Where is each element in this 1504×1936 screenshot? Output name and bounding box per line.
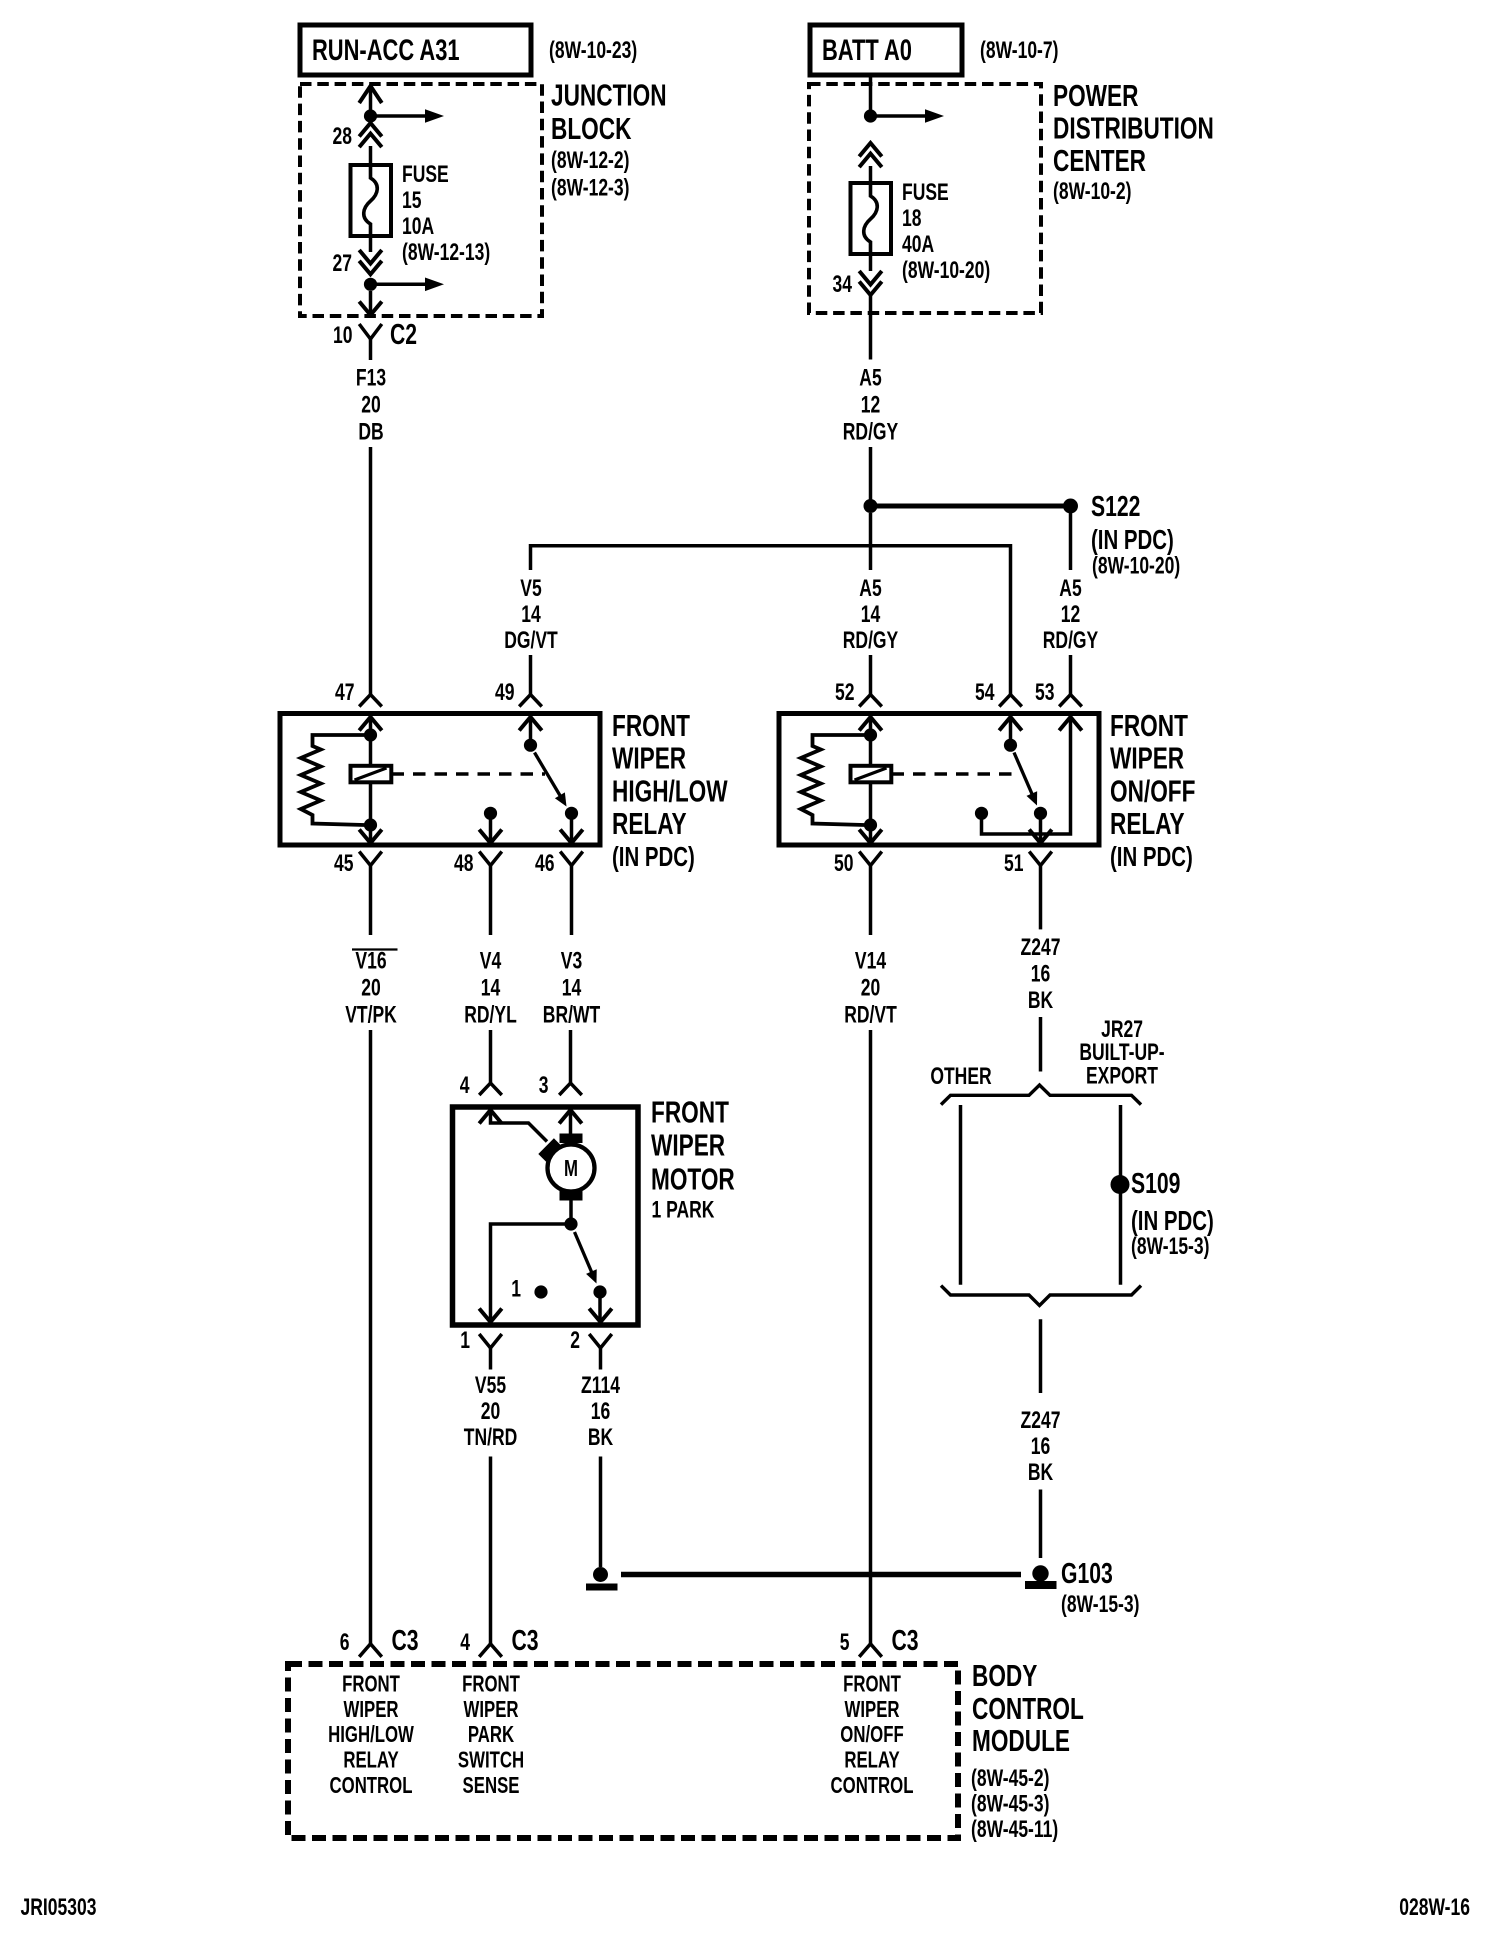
S122 labels	[1091, 491, 1180, 579]
fuse 15 10A (junction block)	[351, 165, 392, 236]
fuse 18 labels	[902, 179, 990, 283]
svg-text:BUILT-UP-: BUILT-UP-	[1079, 1039, 1164, 1065]
relay coil energizing dot top	[864, 728, 877, 741]
svg-text:OTHER: OTHER	[930, 1063, 991, 1089]
svg-text:34: 34	[833, 271, 853, 297]
svg-text:10: 10	[333, 322, 352, 348]
svg-text:10A: 10A	[402, 213, 434, 239]
motor M1 title	[651, 1094, 735, 1223]
wire: BATT feed into PDC	[869, 75, 873, 112]
svg-text:CONTROL: CONTROL	[831, 1773, 914, 1798]
node: junction dot A (in junction block)	[364, 109, 377, 122]
svg-text:FUSE: FUSE	[902, 179, 949, 205]
branch arrow right (in junction block)	[376, 109, 445, 123]
svg-text:52: 52	[835, 679, 854, 705]
svg-text:(8W-10-7): (8W-10-7)	[980, 37, 1058, 63]
branch arrow right lower (in junction block)	[376, 278, 445, 292]
power source box BATT A0	[810, 25, 962, 75]
svg-text:28: 28	[333, 123, 353, 149]
relay coil energizing dot top	[364, 728, 377, 741]
relay K1 dashed actuation link	[392, 772, 546, 775]
svg-text:53: 53	[1035, 679, 1054, 705]
svg-text:Z114: Z114	[581, 1372, 620, 1398]
svg-text:(8W-10-23): (8W-10-23)	[549, 37, 637, 63]
svg-text:WIPER: WIPER	[651, 1127, 725, 1162]
junction block (dashed boundary)	[300, 84, 542, 316]
relay coil dot bottom	[864, 818, 877, 831]
relay K1 switch common dot (pin 49)	[524, 717, 537, 752]
wire to junction block bottom edge with down arrow	[359, 291, 382, 315]
svg-text:RELAY: RELAY	[844, 1748, 900, 1773]
pin 48 connector	[454, 830, 502, 877]
svg-text:14: 14	[521, 601, 541, 627]
BCM pin 5 function text	[831, 1672, 914, 1799]
svg-text:Z247: Z247	[1021, 934, 1061, 960]
svg-text:WIPER: WIPER	[844, 1697, 899, 1722]
motor M1 FRONT WIPER MOTOR box	[453, 1107, 639, 1325]
svg-text:RELAY: RELAY	[343, 1748, 399, 1773]
svg-text:46: 46	[535, 850, 554, 876]
svg-text:(8W-12-3): (8W-12-3)	[551, 175, 629, 201]
svg-text:FRONT: FRONT	[651, 1094, 729, 1129]
sheet number 028W-16	[1399, 1894, 1470, 1920]
power distribution center title	[1053, 77, 1214, 204]
svg-text:45: 45	[334, 850, 354, 876]
svg-text:V14: V14	[855, 948, 886, 974]
pin 49 connector	[495, 679, 542, 730]
wire A5 14 RD/GY to pin 52	[843, 513, 898, 695]
svg-text:SENSE: SENSE	[463, 1773, 520, 1798]
svg-text:(8W-12-2): (8W-12-2)	[551, 147, 629, 173]
label OTHER	[930, 1063, 991, 1089]
svg-text:(IN PDC): (IN PDC)	[1091, 525, 1174, 556]
svg-text:20: 20	[861, 975, 880, 1001]
S109 labels	[1131, 1168, 1214, 1260]
wire F13 20 DB	[356, 365, 386, 695]
pin 28 double chevron	[333, 123, 382, 150]
svg-text:5: 5	[840, 1629, 850, 1655]
motor pin 1 connector	[460, 1309, 502, 1370]
node: splice S122 junction dot on A5 wire	[864, 499, 878, 513]
wire V16 20 VT/PK with overline	[345, 866, 397, 1644]
svg-text:C2: C2	[390, 319, 417, 351]
relay K2 FRONT WIPER ON/OFF RELAY box	[779, 714, 1099, 846]
relay K1 contact dot pin 48	[484, 807, 497, 843]
pin 27 double chevron	[333, 236, 382, 277]
reference (8W-10-7)	[980, 37, 1058, 63]
pin 54 connector	[975, 679, 1022, 730]
svg-text:MOTOR: MOTOR	[651, 1161, 735, 1196]
svg-text:028W-16: 028W-16	[1399, 1894, 1470, 1920]
svg-text:(IN PDC): (IN PDC)	[612, 842, 695, 873]
motor pin 3 connector	[539, 1063, 582, 1124]
wire: RUN-ACC feed into junction block with up arrow	[359, 86, 382, 112]
connector C3 pin 5	[840, 1625, 919, 1657]
wire V55 20 TN/RD	[464, 1372, 518, 1643]
svg-text:POWER: POWER	[1053, 77, 1139, 112]
svg-text:HIGH/LOW: HIGH/LOW	[328, 1723, 414, 1748]
top selection brace	[941, 1085, 1141, 1105]
connector C2 pin 10	[333, 319, 417, 360]
junction block title	[551, 77, 667, 201]
G103 labels	[1061, 1558, 1139, 1618]
svg-text:14: 14	[481, 975, 501, 1001]
svg-text:(8W-10-2): (8W-10-2)	[1053, 178, 1131, 204]
svg-text:(8W-45-2): (8W-45-2)	[971, 1765, 1049, 1791]
power source box RUN-ACC A31	[300, 25, 531, 75]
svg-text:WIPER: WIPER	[1110, 740, 1184, 775]
svg-text:VT/PK: VT/PK	[345, 1002, 397, 1028]
svg-text:A5: A5	[1059, 575, 1082, 601]
svg-text:F13: F13	[356, 365, 386, 391]
svg-text:G103: G103	[1061, 1558, 1113, 1590]
park contact 1 dot	[511, 1276, 547, 1302]
relay K1 FRONT WIPER HIGH/LOW RELAY box	[280, 714, 600, 846]
power distribution center (dashed boundary)	[809, 84, 1041, 313]
relay K2 moving contact dot (pin 51)	[1034, 807, 1047, 843]
motor top brush	[560, 1134, 583, 1144]
svg-text:3: 3	[539, 1072, 549, 1098]
svg-text:(8W-45-3): (8W-45-3)	[971, 1791, 1049, 1817]
wire chevron to fuse 18	[869, 166, 873, 183]
svg-text:A5: A5	[859, 365, 882, 391]
svg-text:16: 16	[591, 1398, 610, 1424]
svg-text:EXPORT: EXPORT	[1086, 1063, 1158, 1089]
relay coil resistor (parallel)	[301, 735, 365, 825]
svg-text:V4: V4	[480, 948, 502, 974]
fuse 18 40A (in PDC)	[851, 183, 892, 254]
motor bottom brush	[560, 1191, 583, 1201]
svg-text:27: 27	[333, 250, 352, 276]
wire brush to park switch pivot	[569, 1201, 573, 1221]
svg-text:V5: V5	[520, 575, 542, 601]
svg-text:ON/OFF: ON/OFF	[840, 1723, 903, 1748]
pin 45 connector	[334, 830, 382, 877]
svg-text:(8W-10-20): (8W-10-20)	[902, 257, 990, 283]
svg-text:4: 4	[460, 1072, 470, 1098]
svg-text:48: 48	[454, 850, 474, 876]
svg-text:16: 16	[1031, 961, 1050, 987]
node: splice S109 dot	[1111, 1175, 1130, 1194]
relay coil dot bottom	[364, 818, 377, 831]
relay coil box	[851, 766, 892, 783]
body control module title	[971, 1657, 1084, 1842]
relay coil box	[351, 766, 392, 783]
svg-text:20: 20	[361, 975, 380, 1001]
bottom selection brace	[941, 1286, 1141, 1306]
svg-text:JUNCTION: JUNCTION	[551, 77, 667, 112]
svg-text:S109: S109	[1131, 1168, 1180, 1200]
wire V5 branch horizontal link (pin 54 to pin 49)	[531, 546, 1011, 695]
svg-text:RUN-ACC A31: RUN-ACC A31	[312, 33, 460, 67]
connector C3 pin 4	[460, 1625, 538, 1657]
svg-text:RELAY: RELAY	[612, 806, 687, 841]
pin 52 connector	[835, 679, 882, 730]
svg-text:54: 54	[975, 679, 995, 705]
relay coil wires	[369, 717, 373, 843]
svg-text:40A: 40A	[902, 231, 934, 257]
svg-text:RD/YL: RD/YL	[464, 1002, 517, 1028]
body control module (dashed boundary)	[288, 1664, 958, 1838]
svg-text:RD/GY: RD/GY	[1043, 627, 1098, 653]
label JR27 BUILT-UP-EXPORT	[1079, 1016, 1164, 1089]
svg-text:(8W-15-3): (8W-15-3)	[1061, 1591, 1139, 1617]
svg-text:16: 16	[1031, 1433, 1050, 1459]
svg-text:S122: S122	[1091, 491, 1140, 523]
svg-text:JRI05303: JRI05303	[21, 1894, 97, 1920]
svg-text:V3: V3	[561, 948, 582, 974]
svg-text:51: 51	[1004, 850, 1024, 876]
svg-text:15: 15	[402, 187, 422, 213]
svg-text:PARK: PARK	[468, 1723, 515, 1748]
svg-text:50: 50	[834, 850, 853, 876]
svg-text:CENTER: CENTER	[1053, 142, 1146, 177]
svg-text:SWITCH: SWITCH	[458, 1748, 524, 1773]
relay K2 title	[1110, 707, 1195, 872]
svg-text:MODULE: MODULE	[972, 1722, 1070, 1757]
node: junction dot (in PDC)	[864, 109, 877, 122]
svg-text:(8W-12-13): (8W-12-13)	[402, 239, 490, 265]
park switch contact dot above pin 2	[593, 1285, 606, 1322]
wire pin 3 to top brush	[569, 1110, 573, 1134]
svg-text:WIPER: WIPER	[463, 1697, 518, 1722]
pin 53 connector	[1035, 679, 1082, 730]
node: splice S122 dot	[1063, 499, 1078, 514]
pin 34 double chevron	[833, 254, 882, 298]
svg-text:1: 1	[460, 1327, 470, 1353]
svg-text:6: 6	[340, 1629, 350, 1655]
svg-text:CONTROL: CONTROL	[972, 1690, 1084, 1725]
svg-text:DISTRIBUTION: DISTRIBUTION	[1053, 110, 1214, 145]
svg-text:4: 4	[460, 1629, 470, 1655]
wire Z114 16 BK	[581, 1372, 620, 1567]
svg-text:(8W-15-3): (8W-15-3)	[1131, 1233, 1209, 1259]
relay K2 dashed actuation link	[892, 772, 1017, 775]
svg-text:V55: V55	[475, 1372, 506, 1398]
svg-text:49: 49	[495, 679, 514, 705]
reference (8W-10-23)	[549, 37, 637, 63]
double chevron (PDC feed)	[859, 143, 882, 167]
svg-text:V16: V16	[355, 948, 386, 974]
wire A5 12 RD/GY (fuse 18 output)	[843, 365, 898, 500]
motor brush diagonal (pin 4 side)	[538, 1138, 561, 1161]
svg-text:1 PARK: 1 PARK	[652, 1197, 715, 1223]
svg-text:FRONT: FRONT	[843, 1672, 901, 1697]
svg-text:RD/VT: RD/VT	[844, 1002, 897, 1028]
relay coil resistor (parallel)	[801, 735, 865, 825]
pin 47 connector	[335, 679, 382, 730]
relay K1 switch arm with arrow	[535, 753, 567, 807]
svg-text:FRONT: FRONT	[462, 1672, 520, 1697]
svg-text:BK: BK	[1028, 987, 1053, 1013]
svg-text:(IN PDC): (IN PDC)	[1110, 842, 1193, 873]
wire A5 12 RD/GY to pin 53	[1043, 513, 1098, 695]
svg-text:20: 20	[361, 392, 380, 418]
svg-text:BK: BK	[1028, 1459, 1053, 1485]
ground G103 symbol	[1025, 1565, 1057, 1589]
svg-text:BATT A0: BATT A0	[822, 33, 912, 67]
svg-text:BODY: BODY	[972, 1657, 1037, 1692]
svg-text:(IN PDC): (IN PDC)	[1131, 1206, 1214, 1237]
svg-text:BR/WT: BR/WT	[543, 1002, 601, 1028]
motor armature circle with M	[548, 1145, 595, 1192]
park switch pivot dot	[564, 1217, 577, 1230]
park switch arm with arrow	[575, 1232, 597, 1284]
svg-text:ON/OFF: ON/OFF	[1110, 773, 1195, 808]
svg-text:DB: DB	[358, 419, 383, 445]
svg-text:18: 18	[902, 205, 922, 231]
svg-text:RD/GY: RD/GY	[843, 627, 898, 653]
wire Z247 16 BK (splice to ground)	[1021, 1319, 1061, 1558]
svg-text:RELAY: RELAY	[1110, 806, 1185, 841]
wire V3 14 BR/WT	[543, 866, 601, 1064]
svg-text:C3: C3	[392, 1625, 419, 1657]
svg-text:14: 14	[861, 601, 881, 627]
motor pin 2 connector	[570, 1309, 612, 1370]
relay K2 switch arm with arrow	[1014, 753, 1037, 806]
svg-text:1: 1	[511, 1276, 521, 1302]
svg-text:2: 2	[570, 1327, 580, 1353]
relay coil wires	[869, 717, 873, 843]
svg-text:TN/RD: TN/RD	[464, 1424, 518, 1450]
svg-text:BK: BK	[588, 1424, 613, 1450]
relay K2 stationary contact dot wired to pin 53	[975, 717, 1071, 834]
pin 46 connector	[535, 830, 583, 877]
relay K1 contact dot pin 46	[565, 807, 578, 843]
wire through PDC bottom edge	[869, 295, 873, 360]
svg-text:RD/GY: RD/GY	[843, 419, 898, 445]
svg-text:(8W-10-20): (8W-10-20)	[1092, 553, 1180, 579]
wire V14 20 RD/VT	[844, 866, 897, 1644]
svg-text:FRONT: FRONT	[612, 707, 690, 742]
svg-text:Z247: Z247	[1021, 1407, 1061, 1433]
wire thick ground link	[621, 1572, 1021, 1578]
svg-text:14: 14	[562, 975, 582, 1001]
node: junction dot B (in junction block)	[364, 278, 377, 291]
wire V5 14 DG/VT	[504, 575, 558, 694]
wire OTHER branch	[959, 1105, 963, 1285]
wire BUILT-UP-EXPORT branch	[1119, 1105, 1123, 1285]
svg-text:CONTROL: CONTROL	[330, 1773, 413, 1798]
svg-text:A5: A5	[859, 575, 882, 601]
svg-text:FUSE: FUSE	[402, 161, 449, 187]
svg-text:47: 47	[335, 679, 354, 705]
svg-text:FRONT: FRONT	[1110, 707, 1188, 742]
svg-text:C3: C3	[892, 1625, 919, 1657]
wire: thick link to S122 (in PDC)	[871, 504, 1071, 509]
relay K1 title	[612, 707, 728, 872]
svg-text:20: 20	[481, 1398, 500, 1424]
BCM pin 6 function text	[328, 1672, 414, 1799]
svg-text:DG/VT: DG/VT	[504, 627, 558, 653]
svg-text:WIPER: WIPER	[612, 740, 686, 775]
connector C3 pin 6	[340, 1625, 419, 1657]
wire Z247 16 BK (relay 51 to splice)	[1021, 866, 1061, 1072]
svg-text:FRONT: FRONT	[342, 1672, 400, 1697]
svg-text:12: 12	[1061, 601, 1080, 627]
svg-text:WIPER: WIPER	[343, 1697, 398, 1722]
drawing number JRI05303	[21, 1894, 97, 1920]
motor pin 4 connector	[460, 1063, 502, 1124]
relay K2 switch common dot (pin 54)	[1004, 717, 1017, 752]
pin 51 connector	[1004, 830, 1052, 877]
svg-text:(8W-45-11): (8W-45-11)	[971, 1816, 1058, 1842]
wire V4 14 RD/YL	[464, 866, 517, 1064]
fuse 15 labels	[402, 161, 490, 265]
pin 50 connector	[834, 830, 882, 877]
svg-text:HIGH/LOW: HIGH/LOW	[612, 773, 728, 808]
ground symbol (Z114 wire)	[586, 1567, 618, 1591]
svg-text:BLOCK: BLOCK	[551, 110, 632, 145]
svg-text:C3: C3	[512, 1625, 539, 1657]
svg-text:12: 12	[861, 392, 880, 418]
branch arrow right (in PDC)	[876, 109, 945, 123]
wire chevron to fuse	[369, 146, 373, 165]
svg-text:M: M	[564, 1157, 578, 1182]
BCM pin 4 function text	[458, 1672, 524, 1799]
wire pin 4 to brush	[491, 1110, 548, 1142]
wire pivot to pin 1	[491, 1224, 572, 1322]
